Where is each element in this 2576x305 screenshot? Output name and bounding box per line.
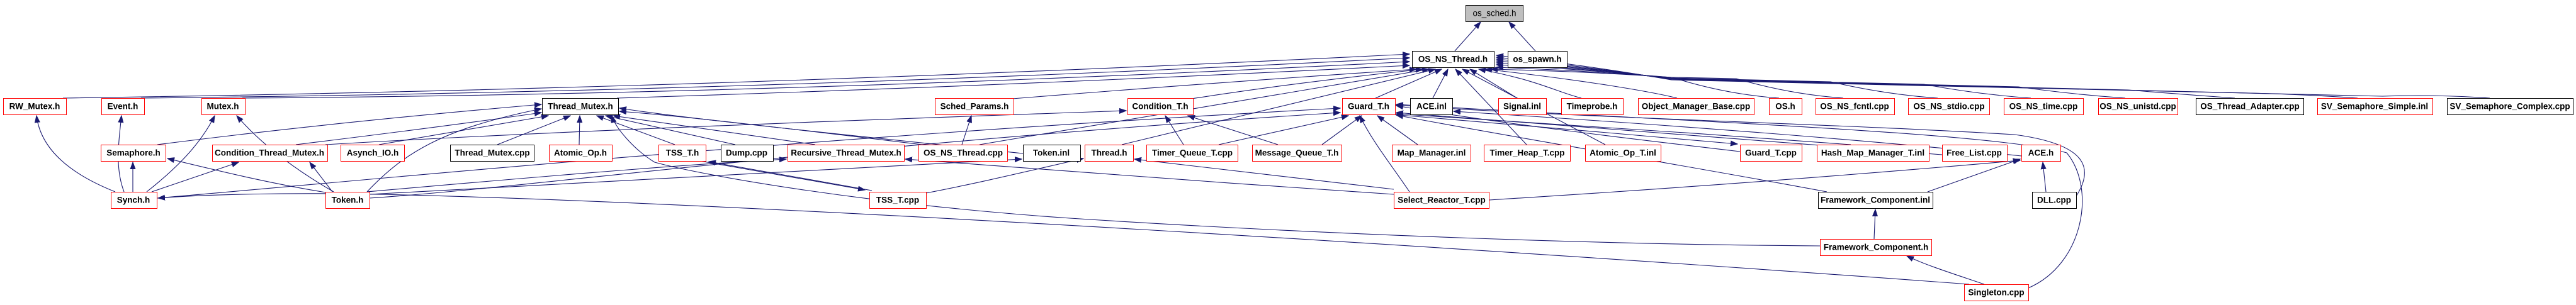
edge TSS_T.cpp->TSS_T.h [709, 162, 872, 191]
edge RW_Mutex.h->OS_NS_Thread.h [63, 54, 1409, 98]
edge Token.h->Condition_Thread_Mutex.h [310, 162, 332, 192]
node ACE.inl [1411, 99, 1453, 115]
edge Thread_Mutex.cpp->Thread_Mutex.h [497, 116, 570, 145]
node OS_NS_Thread.h [1413, 52, 1494, 68]
svg-text:Condition_T.h: Condition_T.h [1132, 102, 1188, 111]
node os_spawn.h [1508, 52, 1568, 68]
edge OS_NS_Thread.cpp->OS_NS_Thread.h [980, 69, 1429, 145]
node TSS_T.h [659, 145, 706, 162]
node Message_Queue_T.h [1253, 145, 1342, 162]
svg-text:Mutex.h: Mutex.h [206, 102, 239, 111]
edge Token.h->Semaphore.h [167, 158, 326, 192]
edge Synch.h->Guard_T.h [157, 108, 1340, 198]
edge OS_NS_Thread.cpp->Thread_Mutex.h [619, 111, 922, 145]
edge Select_Reactor_T.cpp->Recursive_Thread_Mutex.h [905, 159, 1394, 194]
edge OS_NS_time.cpp->OS_NS_Thread.h [1496, 63, 2031, 98]
svg-text:Message_Queue_T.h: Message_Queue_T.h [1255, 148, 1339, 158]
svg-text:OS_Thread_Adapter.cpp: OS_Thread_Adapter.cpp [2200, 102, 2300, 111]
svg-text:Framework_Component.h: Framework_Component.h [1824, 243, 1929, 252]
node OS_NS_stdio.cpp [1909, 99, 1990, 115]
edge Framework_Component.h->Framework_Component.inl [1874, 209, 1875, 239]
node OS.h [1770, 99, 1802, 115]
node Thread_Mutex.cpp [451, 145, 534, 162]
svg-text:Recursive_Thread_Mutex.h: Recursive_Thread_Mutex.h [791, 148, 901, 158]
svg-text:Object_Manager_Base.cpp: Object_Manager_Base.cpp [1642, 102, 1751, 111]
node Free_List.cpp [1943, 145, 2008, 162]
svg-text:Event.h: Event.h [108, 102, 138, 111]
svg-text:Synch.h: Synch.h [117, 196, 150, 205]
node Framework_Component.h [1821, 240, 1932, 256]
edge Condition_Thread_Mutex.h->Thread_Mutex.h [296, 113, 541, 145]
svg-text:OS_NS_stdio.cpp: OS_NS_stdio.cpp [1913, 102, 1984, 111]
edge Synch.h->Event.h [118, 116, 124, 192]
edge TSS_T.cpp->Thread.h [926, 158, 1083, 193]
svg-text:Dump.cpp: Dump.cpp [726, 148, 767, 158]
edge Guard_T.h->Guard_T.cpp [1393, 114, 1737, 144]
edge Guard_T.h->OS_NS_Thread.h [1376, 69, 1442, 98]
edge Sched_Params.h->OS_NS_Thread.h [1012, 69, 1416, 99]
node Select_Reactor_T.cpp [1394, 192, 1489, 209]
edge os_spawn.h->os_sched.h [1509, 22, 1535, 51]
edge Thread_Mutex.h->OS_NS_Thread.h [617, 65, 1409, 98]
svg-text:Framework_Component.inl: Framework_Component.inl [1821, 196, 1930, 205]
node Condition_T.h [1128, 99, 1194, 115]
node Thread_Mutex.h [543, 99, 619, 115]
edge Map_Manager.inl->Guard_T.h [1377, 116, 1418, 145]
svg-text:Select_Reactor_T.cpp: Select_Reactor_T.cpp [1398, 196, 1486, 205]
node Asynch_IO.h [341, 145, 405, 162]
node Thread.h [1085, 145, 1134, 162]
svg-text:TSS_T.h: TSS_T.h [666, 148, 699, 158]
node Atomic_Op_T.inl [1586, 145, 1661, 162]
edge Hash_Map_Manager_T.inl->Guard_T.h [1396, 114, 1851, 145]
edge Token.h->Mutex.h [237, 116, 334, 192]
svg-text:ACE.h: ACE.h [2028, 148, 2054, 158]
node OS_NS_unistd.cpp [2099, 99, 2178, 115]
svg-text:OS.h: OS.h [1775, 102, 1795, 111]
edge Asynch_IO.h->Thread_Mutex.h [379, 116, 548, 145]
edge Thread.h->OS_NS_Thread.h [1122, 69, 1435, 145]
node Semaphore.h [101, 145, 166, 162]
edge ACE.inl->OS_NS_Thread.h [1433, 69, 1448, 98]
edge Token.inl->Thread_Mutex.h [619, 108, 1023, 153]
node Object_Manager_Base.cpp [1639, 99, 1754, 115]
node Condition_Thread_Mutex.h [213, 145, 328, 162]
svg-text:Guard_T.h: Guard_T.h [1348, 102, 1389, 111]
edge Token.h->Guard_T.h [370, 113, 1340, 198]
svg-text:Timer_Heap_T.cpp: Timer_Heap_T.cpp [1489, 148, 1564, 158]
node Guard_T.h [1343, 99, 1396, 115]
svg-text:SV_Semaphore_Complex.cpp: SV_Semaphore_Complex.cpp [2449, 102, 2570, 111]
node Sched_Params.h [935, 99, 1014, 115]
node OS_NS_time.cpp [2004, 99, 2084, 115]
node Timer_Queue_T.cpp [1147, 145, 1238, 162]
node Synch.h [111, 192, 157, 209]
svg-text:Atomic_Op.h: Atomic_Op.h [554, 148, 607, 158]
svg-text:os_spawn.h: os_spawn.h [1513, 55, 1561, 64]
svg-text:ACE.inl: ACE.inl [1416, 102, 1447, 111]
svg-text:Thread_Mutex.cpp: Thread_Mutex.cpp [455, 148, 529, 158]
edge Guard_T.cpp->Guard_T.h [1396, 106, 1740, 152]
svg-text:Timer_Queue_T.cpp: Timer_Queue_T.cpp [1152, 148, 1233, 158]
edge Singleton.cpp->Synch.h [158, 194, 1969, 284]
node os_sched.h [1466, 6, 1523, 22]
node Mutex.h [202, 99, 246, 115]
node Map_Manager.inl [1393, 145, 1471, 162]
edge Timeprobe.h->OS_NS_Thread.h [1479, 69, 1581, 98]
edge SV_Semaphore_Complex.cpp->OS_NS_Thread.h [1496, 55, 2490, 98]
edge Recursive_Thread_Mutex.h->Thread_Mutex.h [613, 116, 815, 145]
node Singleton.cpp [1965, 285, 2029, 301]
edge OS_NS_stdio.cpp->OS_NS_Thread.h [1496, 65, 1938, 98]
edge Framework_Component.inl->Guard_T.h [1396, 115, 1827, 192]
edge ACE.h->ACE.inl [1454, 111, 2021, 156]
edge TSS_T.h->TSS_T.cpp [700, 161, 865, 190]
svg-text:Sched_Params.h: Sched_Params.h [941, 102, 1009, 111]
edge Synch.h->Mutex.h [147, 116, 215, 192]
node Dump.cpp [721, 145, 774, 162]
svg-text:Semaphore.h: Semaphore.h [106, 148, 161, 158]
node RW_Mutex.h [4, 99, 67, 115]
svg-text:DLL.cpp: DLL.cpp [2037, 196, 2071, 205]
svg-text:TSS_T.cpp: TSS_T.cpp [876, 196, 919, 205]
svg-text:Guard_T.cpp: Guard_T.cpp [1745, 148, 1797, 158]
edge DLL.cpp->ACE.h [2043, 162, 2046, 192]
node TSS_T.cpp [870, 192, 927, 209]
svg-text:Condition_Thread_Mutex.h: Condition_Thread_Mutex.h [215, 148, 324, 158]
edge OS_Thread_Adapter.cpp->OS_NS_Thread.h [1496, 59, 2235, 98]
svg-text:Token.inl: Token.inl [1033, 148, 1070, 158]
svg-text:Free_List.cpp: Free_List.cpp [1946, 148, 2002, 158]
node Framework_Component.inl [1819, 192, 1933, 209]
edge Singleton.cpp->Guard_T.h [1396, 104, 2082, 288]
edge Timer_Queue_T.cpp->Guard_T.h [1219, 116, 1348, 145]
svg-text:Hash_Map_Manager_T.inl: Hash_Map_Manager_T.inl [1821, 148, 1924, 158]
edge Signal.inl->OS_NS_Thread.h [1470, 69, 1517, 98]
node Hash_Map_Manager_T.inl [1817, 145, 1929, 162]
edge Synch.h->RW_Mutex.h [37, 116, 115, 192]
edge Singleton.cpp->Framework_Component.h [1907, 256, 1984, 284]
node Signal.inl [1499, 99, 1547, 115]
edge Framework_Component.inl->ACE.h [1928, 159, 2020, 192]
edge Message_Queue_T.h->Guard_T.h [1322, 116, 1362, 145]
edge Token.h->Thread_Mutex.h [367, 109, 541, 192]
svg-text:RW_Mutex.h: RW_Mutex.h [9, 102, 60, 111]
node SV_Semaphore_Simple.inl [2318, 99, 2433, 115]
node Recursive_Thread_Mutex.h [788, 145, 905, 162]
edge Timer_Heap_T.cpp->OS_NS_Thread.h [1455, 69, 1527, 145]
edge OS_NS_Thread.h->os_sched.h [1455, 22, 1481, 51]
node Guard_T.cpp [1741, 145, 1802, 162]
edge Synch.h->Semaphore.h [132, 162, 133, 192]
svg-text:SV_Semaphore_Simple.inl: SV_Semaphore_Simple.inl [2321, 102, 2428, 111]
edge Mutex.h->OS_NS_Thread.h [242, 62, 1409, 98]
node OS_NS_fcntl.cpp [1816, 99, 1895, 115]
node Token.h [326, 192, 370, 209]
svg-text:Thread_Mutex.h: Thread_Mutex.h [548, 102, 613, 111]
svg-text:Asynch_IO.h: Asynch_IO.h [347, 148, 399, 158]
svg-text:OS_NS_unistd.cpp: OS_NS_unistd.cpp [2099, 102, 2176, 111]
edge OS_NS_Thread.cpp->Sched_Params.h [962, 116, 971, 145]
svg-text:Map_Manager.inl: Map_Manager.inl [1398, 148, 1466, 158]
edge Semaphore.h->Thread_Mutex.h [157, 104, 541, 145]
edge DLL.cpp->Guard_T.h [1396, 105, 2084, 196]
edge Message_Queue_T.h->Condition_T.h [1188, 116, 1278, 145]
edge Atomic_Op_T.inl->OS_NS_Thread.h [1462, 69, 1605, 145]
edge Condition_Thread_Mutex.h->Condition_T.h [325, 111, 1126, 145]
svg-text:Atomic_Op_T.inl: Atomic_Op_T.inl [1590, 148, 1656, 158]
edge Token.h->Recursive_Thread_Mutex.h [367, 159, 786, 192]
edge Synch.h->Condition_Thread_Mutex.h [152, 162, 239, 192]
edge Event.h->OS_NS_Thread.h [141, 58, 1409, 98]
node OS_NS_Thread.cpp [919, 145, 1008, 162]
node DLL.cpp [2033, 192, 2077, 209]
edge TSS_T.h->Thread_Mutex.h [597, 116, 675, 145]
svg-text:Singleton.cpp: Singleton.cpp [1968, 288, 2024, 297]
edge Atomic_Op.h->Thread_Mutex.h [579, 116, 580, 145]
node SV_Semaphore_Complex.cpp [2448, 99, 2573, 115]
edge Select_Reactor_T.cpp->Guard_T.h [1360, 116, 1409, 192]
edge OS_NS_unistd.cpp->OS_NS_Thread.h [1496, 61, 2125, 98]
svg-text:os_sched.h: os_sched.h [1472, 9, 1516, 18]
edge Token.h->Token.inl [370, 159, 1022, 194]
edge Dump.cpp->Thread_Mutex.h [606, 116, 735, 145]
svg-text:Timeprobe.h: Timeprobe.h [1567, 102, 1618, 111]
edge Select_Reactor_T.cpp->Thread.h [1134, 159, 1394, 189]
edge OS_NS_fcntl.cpp->OS_NS_Thread.h [1496, 67, 1843, 98]
edge Framework_Component.h->Thread_Mutex.h [612, 116, 1820, 246]
svg-text:OS_NS_Thread.cpp: OS_NS_Thread.cpp [924, 148, 1003, 158]
svg-text:Thread.h: Thread.h [1091, 148, 1127, 158]
edge Timer_Queue_T.cpp->Condition_T.h [1165, 116, 1183, 145]
node OS_Thread_Adapter.cpp [2196, 99, 2304, 115]
edge Select_Reactor_T.cpp->ACE.h [1489, 160, 2020, 200]
svg-text:OS_NS_fcntl.cpp: OS_NS_fcntl.cpp [1820, 102, 1889, 111]
node Timer_Heap_T.cpp [1484, 145, 1571, 162]
node ACE.h [2022, 145, 2061, 162]
edge Object_Manager_Base.cpp->OS_NS_Thread.h [1485, 69, 1677, 98]
node Timeprobe.h [1562, 99, 1624, 115]
svg-text:OS_NS_Thread.h: OS_NS_Thread.h [1418, 55, 1488, 64]
node Atomic_Op.h [550, 145, 613, 162]
svg-text:OS_NS_time.cpp: OS_NS_time.cpp [2009, 102, 2078, 111]
node Token.inl [1024, 145, 1081, 162]
node Event.h [102, 99, 145, 115]
edge OS.h->OS_NS_Thread.h [1491, 69, 1779, 98]
edge SV_Semaphore_Simple.inl->OS_NS_Thread.h [1496, 57, 2358, 98]
svg-text:Signal.inl: Signal.inl [1503, 102, 1541, 111]
edge Free_List.cpp->Guard_T.h [1396, 113, 1942, 155]
edge Condition_T.h->OS_NS_Thread.h [1192, 69, 1423, 99]
svg-text:Token.h: Token.h [332, 196, 364, 205]
